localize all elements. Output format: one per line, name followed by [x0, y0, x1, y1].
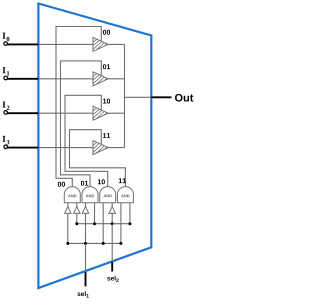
wire sel2 external [111, 262, 113, 272]
tri-state buffer 01 [92, 62, 109, 91]
wire gate 00 left input stub [67, 203, 69, 207]
wire gate 01 left input stub [85, 203, 87, 207]
wire I1 internal [38, 78, 93, 80]
wire gate 10 right input stub [111, 203, 113, 207]
input I3 terminal [4, 145, 8, 149]
junction on sel2 bus at x=76.8 [75, 222, 78, 225]
input I3 label [3, 136, 6, 142]
wire inverter 00 right to bus [76, 213, 78, 223]
junction on sel1 bus at x=67.8 [66, 242, 69, 245]
inverter on gate 10 right input [109, 206, 115, 213]
wire I2 internal [38, 112, 93, 114]
wire gate 11 right input to bus [129, 203, 131, 224]
wire I3 external [7, 147, 38, 149]
input I1 label [3, 67, 6, 73]
buffer enable label 10 [103, 99, 110, 104]
wire sel1 external [85, 272, 87, 286]
wire buffer 01 output [108, 78, 124, 80]
inverter on gate 01 left input [82, 206, 88, 213]
input I1 terminal [4, 76, 8, 80]
inverter on gate 00 left input [65, 206, 71, 213]
sel2 bus (upper) [77, 223, 130, 225]
Out external wire [151, 96, 171, 98]
wire enable net 01 (AND output to buffer enable) [61, 61, 102, 187]
wire sel2 internal [111, 224, 113, 262]
junction on sel2 bus at x=129.9 [128, 222, 131, 225]
AND gate label 10 [98, 179, 105, 184]
wire gate 00 right input stub [76, 203, 78, 207]
AND gate label 11 [119, 178, 126, 183]
wire sel1 internal [85, 243, 87, 272]
wire inverter 10 right to bus [111, 213, 113, 223]
input I0 label [3, 33, 6, 39]
AND gate label 00 [58, 182, 65, 187]
junction on sel2 bus at x=94.5 [93, 222, 96, 225]
junction on sel1 bus at x=103.2 [102, 242, 105, 245]
buffer enable label 01 [103, 64, 110, 69]
input I0 terminal [4, 42, 8, 46]
inverter on gate 00 right input [74, 206, 80, 213]
wire I0 internal [38, 43, 93, 45]
wire enable net 10 (AND output to buffer enable) [65, 95, 108, 187]
junction on sel1 bus at x=120.9 [119, 242, 122, 245]
wire enable net 00 (AND output to buffer enable) [56, 27, 101, 188]
label sel1 [77, 291, 85, 296]
input I2 terminal [4, 111, 8, 115]
tri-state buffer 00 [92, 28, 109, 57]
wire buffer 10 output [108, 112, 124, 114]
wire I3 internal [38, 147, 93, 149]
input I2 label [3, 101, 6, 107]
wire I1 external [7, 78, 38, 80]
AND gate 00 [64, 187, 80, 203]
buffer enable label 11 [103, 133, 110, 138]
label sel2 [107, 276, 115, 281]
junction on sel2 bus at x=112.2 [111, 222, 114, 225]
AND gate label 01 [81, 181, 88, 186]
sel1 bus (lower) [68, 242, 121, 244]
wire I2 external [7, 112, 38, 114]
junction on sel1 bus at x=85.5 [84, 242, 87, 245]
wire enable net 11 (AND output to buffer enable) [70, 130, 126, 187]
AND gate 10 [100, 187, 116, 203]
tri-state buffer 11 [92, 131, 109, 160]
wire inverter 00 left to bus [67, 213, 69, 243]
label Out [175, 94, 193, 102]
wire I0 external [7, 43, 38, 45]
output bus wire [124, 44, 126, 147]
wire buffer 00 output [108, 43, 124, 45]
tri-state buffer 10 [92, 97, 109, 126]
AND gate 11 [117, 187, 133, 203]
wire gate 10 left input to bus [102, 203, 104, 244]
wire gate 01 right input to bus [94, 203, 96, 224]
wire buffer 11 output [108, 147, 124, 149]
wire inverter 01 left to bus [85, 213, 87, 243]
wire to Out [125, 96, 152, 98]
buffer enable label 00 [103, 30, 110, 35]
wire gate 11 left input to bus [120, 203, 122, 244]
mux body outline (trapezoid) [38, 4, 151, 289]
AND gate 01 [82, 187, 98, 203]
